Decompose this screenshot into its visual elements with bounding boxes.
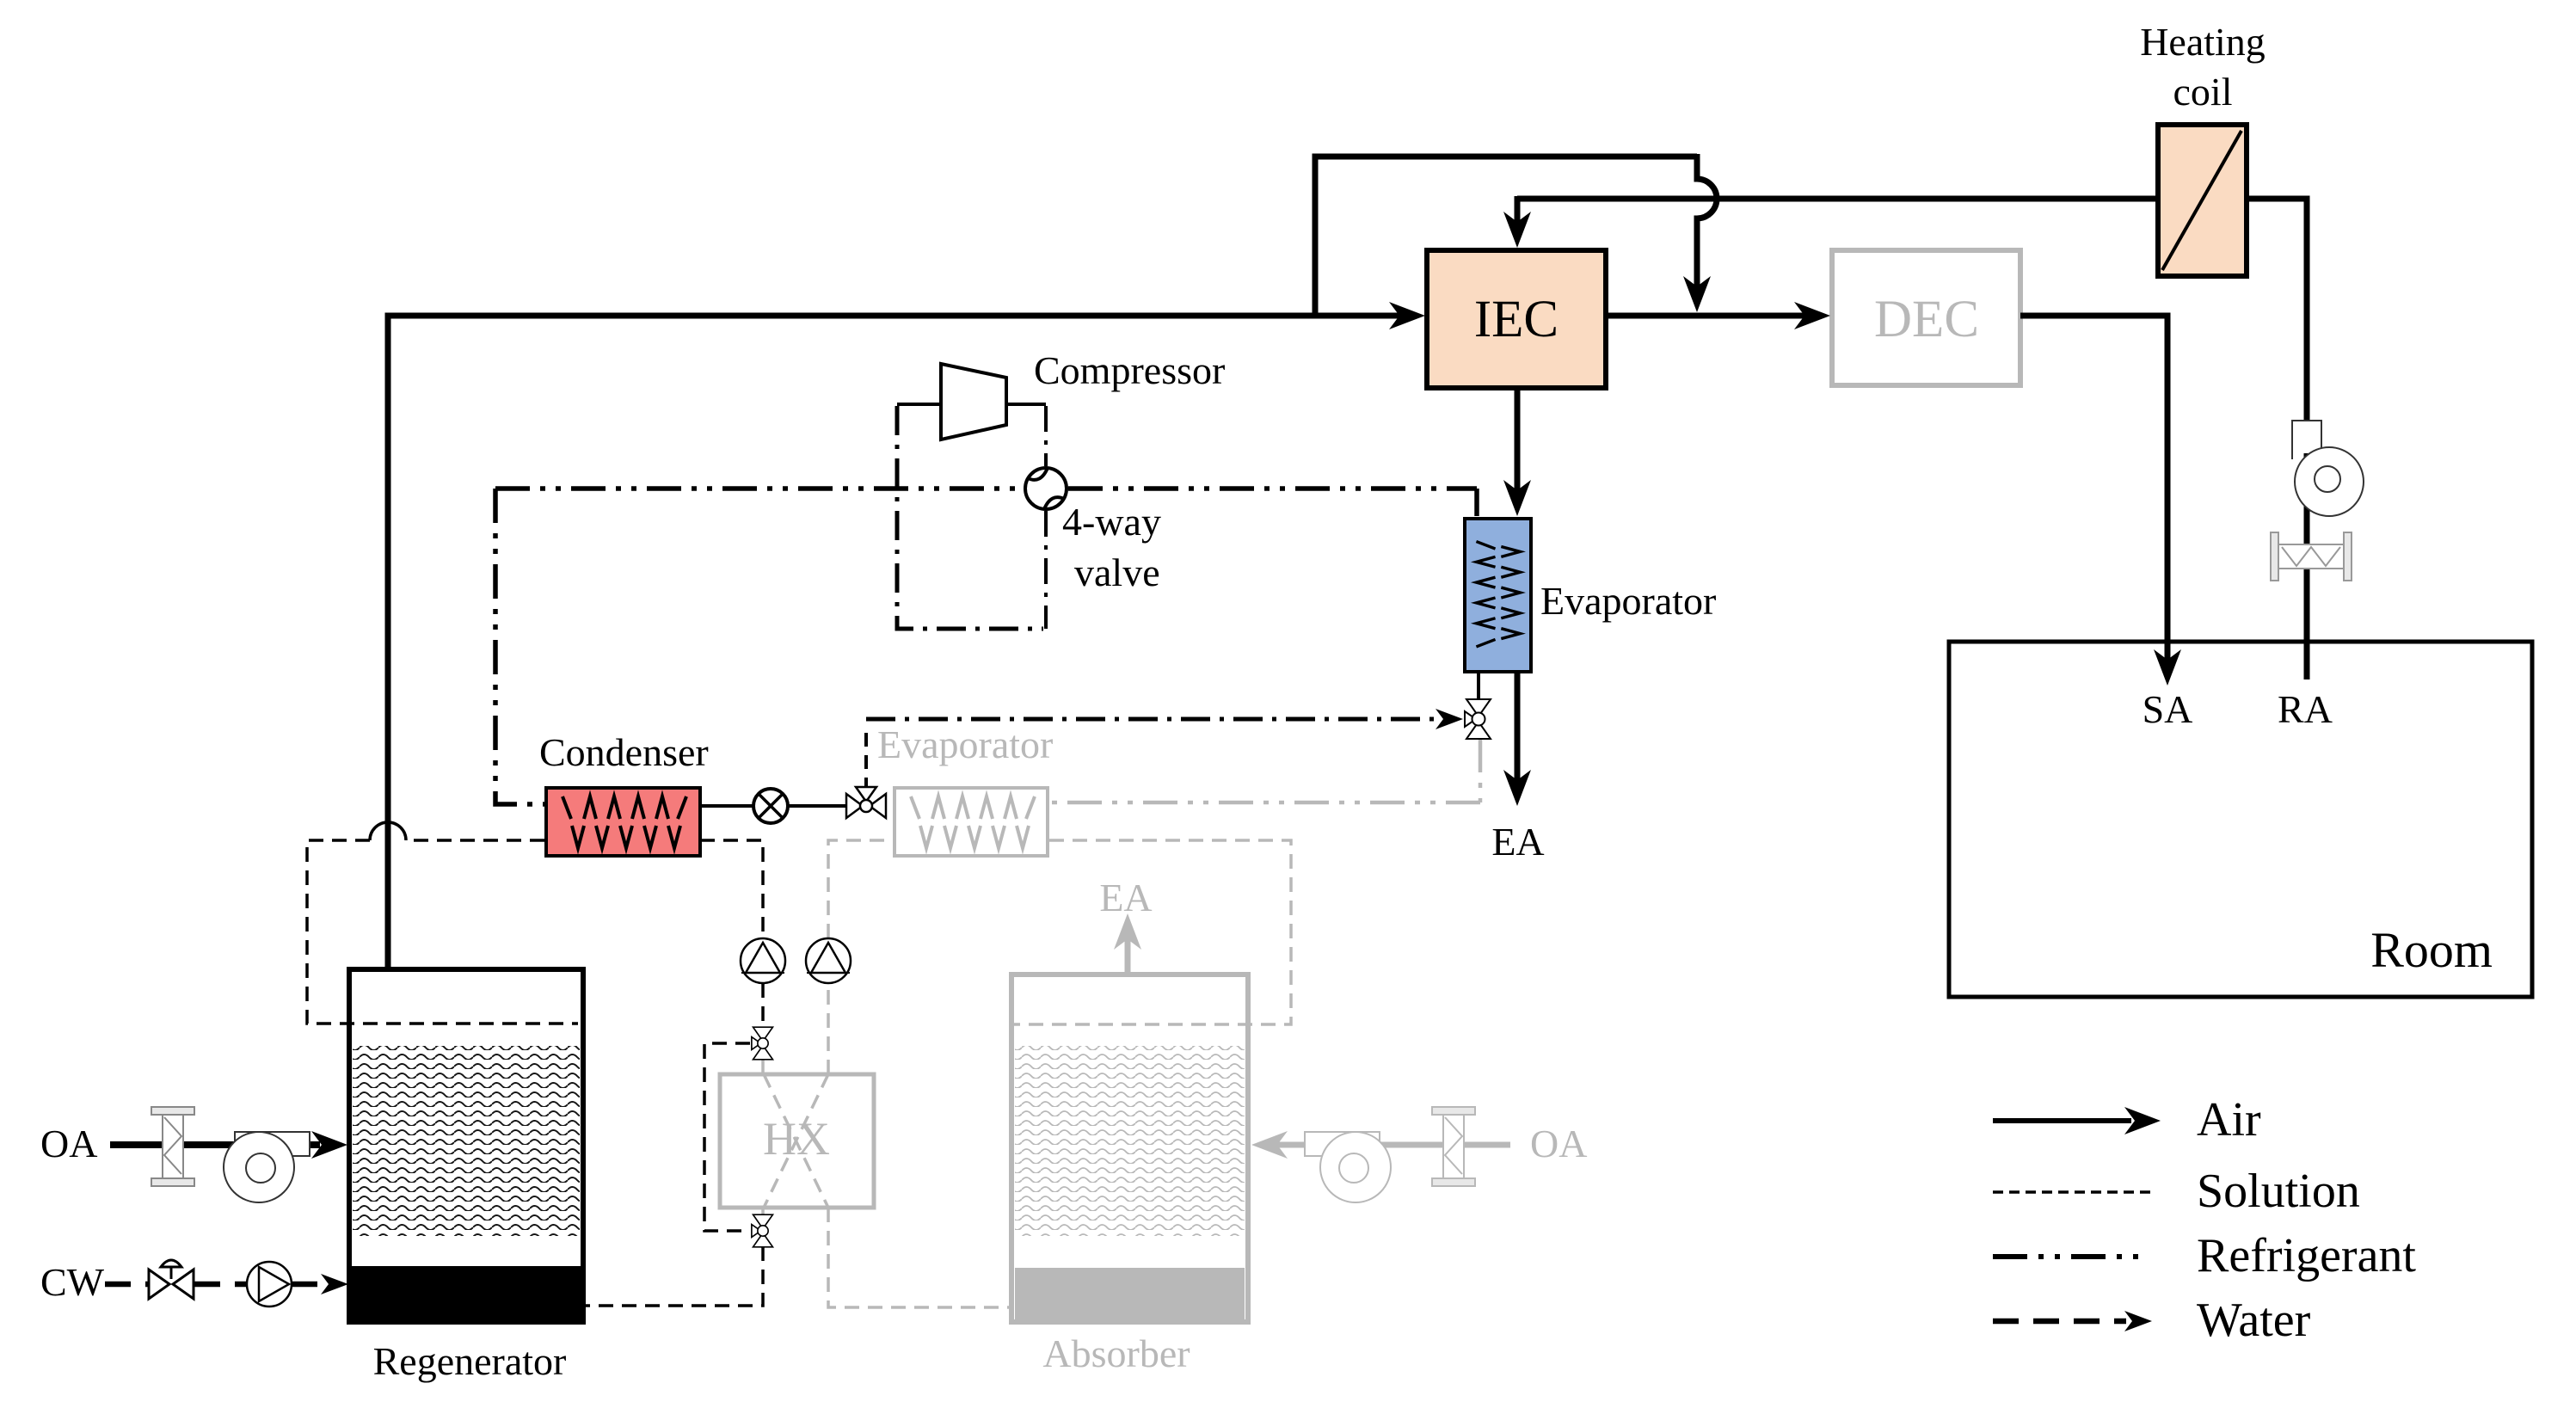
wire solution gray pump column [828, 840, 893, 1074]
svg-text:Evaporator: Evaporator [877, 722, 1053, 766]
svg-text:EA: EA [1099, 876, 1152, 919]
wire refrigerant to expansion valve [864, 724, 868, 791]
CW valve [149, 1260, 194, 1299]
svg-text:EA: EA [1491, 820, 1544, 864]
wire compressor stub right [1006, 403, 1046, 406]
wire air into IEC top [1515, 196, 1521, 225]
wire air evaporator to EA [1515, 672, 1521, 783]
RA fan [2292, 421, 2364, 516]
compressor [941, 364, 1006, 440]
svg-text:OA: OA [1530, 1122, 1587, 1165]
wire water CW line [105, 1282, 323, 1288]
absorber tank [1011, 975, 1248, 1322]
svg-text:Air: Air [2197, 1093, 2261, 1147]
regenerator tank [349, 969, 583, 1322]
svg-text:4-way: 4-way [1062, 500, 1161, 544]
wire compressor stub left [897, 403, 941, 406]
room [1949, 642, 2532, 997]
RA damper [2271, 532, 2352, 581]
evaporator gray box [895, 788, 1048, 856]
svg-text:Heating: Heating [2140, 20, 2266, 64]
wire refrigerant 4way bottom [1044, 511, 1048, 629]
wire solution gray evaporator to absorber spray [1014, 840, 1291, 1024]
wire solution V2 to regenerator bottom [584, 1246, 763, 1306]
valve V2 [752, 1214, 773, 1247]
svg-text:IEC: IEC [1474, 291, 1559, 348]
legend water [1993, 1294, 2311, 1347]
wire solution condenser left to regenerator spray [307, 840, 578, 1024]
wire air main to IEC [385, 313, 1404, 319]
wire refrigerant 4way left run [495, 486, 1024, 491]
svg-text:valve: valve [1074, 550, 1160, 594]
wire solution pump to valve V1 [761, 983, 765, 1029]
svg-text:Water: Water [2197, 1294, 2311, 1347]
wire evaporator to expansion valve [1477, 672, 1480, 700]
OA damper [151, 1107, 194, 1186]
svg-text:Solution: Solution [2197, 1165, 2360, 1218]
condenser box [546, 788, 700, 856]
wire air regenerator to main [388, 316, 391, 969]
wire gray air OA inlet right [1277, 1142, 1510, 1148]
wire refrigerant 4way right run [1068, 486, 1477, 491]
expansion valve circle-x [753, 789, 788, 823]
wire refrigerant compressor discharge [1044, 406, 1048, 466]
svg-text:Absorber: Absorber [1042, 1331, 1190, 1375]
IEC box [1427, 250, 1606, 388]
svg-text:Room: Room [2370, 922, 2493, 978]
svg-text:coil: coil [2173, 70, 2233, 114]
svg-text:Condenser: Condenser [539, 730, 709, 774]
svg-text:RA: RA [2278, 687, 2333, 731]
wire solution gray V1 to HX [761, 1059, 765, 1074]
svg-text:Compressor: Compressor [1034, 348, 1225, 392]
legend solution [1993, 1165, 2360, 1218]
wire air OA inlet [110, 1141, 320, 1148]
wire air IEC to evaporator [1515, 388, 1521, 493]
gray OA fan [1305, 1132, 1391, 1202]
solution pump left [741, 938, 785, 983]
valve V1 [752, 1027, 773, 1060]
HX box [720, 1074, 874, 1208]
wire refrigerant compressor suction loop [897, 406, 1043, 629]
svg-text:Refrigerant: Refrigerant [2197, 1229, 2416, 1282]
svg-text:Evaporator: Evaporator [1540, 579, 1716, 623]
gray OA damper [1432, 1107, 1475, 1186]
heating coil [2158, 125, 2247, 276]
wire air bypass down with hop [1697, 154, 1717, 291]
wire solution gray HX to absorber bottom [828, 1208, 1011, 1307]
CW pump [247, 1262, 292, 1307]
4-way valve [1025, 468, 1067, 509]
wire solution gray HX diagonals [764, 1074, 828, 1208]
wire solution condenser right down [700, 840, 763, 939]
svg-text:CW: CW [40, 1260, 105, 1304]
legend refrigerant [1993, 1229, 2416, 1282]
3-way valve at gray evaporator [846, 787, 886, 818]
OA fan [224, 1132, 310, 1202]
wire air DEC to SA [2020, 316, 2167, 662]
expansion valve at blue evaporator [1465, 699, 1491, 739]
solution pump right [806, 938, 851, 983]
wire air IEC to DEC [1606, 313, 1808, 319]
svg-text:OA: OA [40, 1122, 97, 1165]
wire refrigerant down to evaporator top [1474, 489, 1479, 516]
wire solution bypass V1 to V2 [704, 1043, 750, 1231]
wire gray air EA out of absorber [1125, 938, 1131, 975]
wire refrigerant down to condenser [495, 489, 544, 804]
evaporator blue box [1465, 519, 1531, 672]
wire condenser to valve thin [700, 804, 753, 808]
wire solution gray HX to V2 [761, 1208, 765, 1215]
wire refrigerant gray return [1049, 738, 1480, 802]
DEC box [1832, 250, 2020, 385]
wire air branch up [1315, 157, 1697, 316]
legend air [1993, 1093, 2261, 1147]
svg-text:HX: HX [763, 1113, 830, 1165]
svg-text:DEC: DEC [1874, 291, 1979, 348]
svg-text:SA: SA [2143, 687, 2193, 731]
svg-text:Regenerator: Regenerator [373, 1339, 567, 1383]
wire valve to 3way thin [788, 804, 846, 808]
wire air RA return [1517, 199, 2307, 679]
